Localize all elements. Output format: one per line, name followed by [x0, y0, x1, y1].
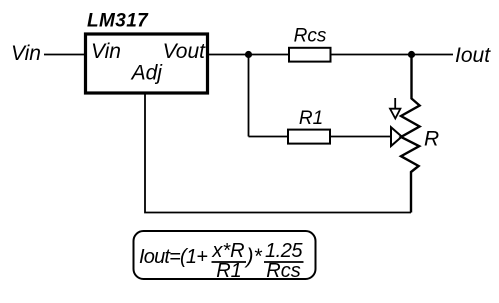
svg-text:Vout: Vout [163, 40, 207, 63]
svg-text:Rcs: Rcs [294, 26, 327, 47]
svg-text:Rcs: Rcs [266, 260, 300, 282]
resistor Rcs [289, 48, 331, 62]
wire to R1 [249, 136, 289, 138]
potentiometer wiper arrow [391, 127, 402, 146]
wire Vout to Rcs [208, 54, 289, 56]
svg-text:R: R [424, 128, 439, 151]
potentiometer R zigzag with leads [401, 55, 420, 213]
svg-text:Vin: Vin [91, 40, 121, 63]
svg-text:Iout=(1+: Iout=(1+ [139, 246, 207, 268]
node junction A (Vout/R1) [245, 51, 252, 58]
svg-text:Adj: Adj [130, 62, 164, 85]
svg-text:1.25: 1.25 [265, 240, 303, 262]
svg-text:Vin: Vin [11, 42, 41, 65]
resistor R1 [288, 130, 330, 144]
formula box [134, 231, 316, 279]
regulator U1 LM317 body [86, 34, 208, 93]
wire Vin input [44, 54, 84, 56]
adjustment arrow on R [390, 98, 400, 119]
svg-text:Iout: Iout [455, 44, 491, 67]
wire junction A down [248, 55, 250, 137]
svg-text:)*: )* [244, 245, 263, 268]
svg-text:R1: R1 [299, 108, 323, 129]
svg-text:LM317: LM317 [87, 11, 149, 32]
node junction B (Rcs/pot top) [408, 51, 415, 58]
wire Adj feedback (pot bottom to Adj pin) [145, 94, 411, 213]
svg-text:R1: R1 [216, 260, 242, 282]
wire Rcs to Iout [331, 54, 454, 56]
wire R1 to wiper [330, 136, 391, 138]
svg-text:x*R: x*R [211, 240, 244, 262]
